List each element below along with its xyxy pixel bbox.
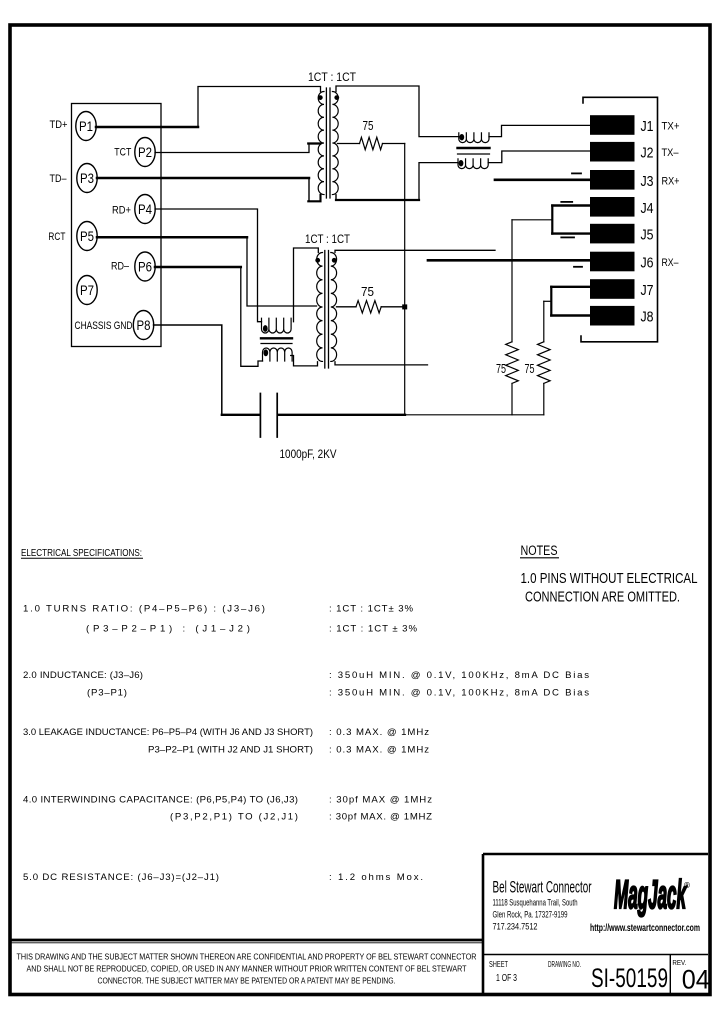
resistor R1 lead right to node xyxy=(383,143,405,145)
wire P1 to T1 primary top xyxy=(96,126,198,129)
J2 contact pad xyxy=(590,142,635,162)
svg-text:P4: P4 xyxy=(138,202,152,217)
svg-text:DRAWING NO.: DRAWING NO. xyxy=(548,960,581,969)
pin P8 xyxy=(133,311,153,340)
J4 contact pad xyxy=(590,197,635,217)
svg-text:P6: P6 xyxy=(138,260,152,275)
svg-text:75: 75 xyxy=(361,285,374,299)
svg-text:: 350uH MIN. @ 0.1V, 100KHz,: : 350uH MIN. @ 0.1V, 100KHz, 8mA DC Bias xyxy=(329,688,589,699)
resistor R3 lead bottom xyxy=(511,383,513,414)
resistor R3 zigzag xyxy=(506,342,519,384)
svg-text:P3–P2–P1 (WITH J2 AND J1 SHORT: P3–P2–P1 (WITH J2 AND J1 SHORT) xyxy=(148,745,313,756)
capacitor C1 wire right xyxy=(278,414,405,416)
svg-text:NOTES: NOTES xyxy=(521,543,558,558)
svg-text:MagJack: MagJack xyxy=(614,873,687,917)
rev cell divider xyxy=(669,955,671,994)
pin P1 xyxy=(76,112,96,141)
choke L2 core xyxy=(261,337,292,339)
choke L2 top winding phase dot xyxy=(263,325,268,332)
svg-text:: 350uH MIN. @ 0.1V, 100KHz,: : 350uH MIN. @ 0.1V, 100KHz, 8mA DC Bias xyxy=(329,670,589,681)
choke L2 top winding xyxy=(262,318,292,333)
transformer T2 secondary winding xyxy=(331,253,337,362)
J connector box outline xyxy=(581,97,658,341)
wire P2 to T1 primary center tap xyxy=(155,144,309,153)
transformer T1 secondary winding xyxy=(332,92,338,195)
svg-text:3.0 LEAKAGE INDUCTANCE: P6: 3.0 LEAKAGE INDUCTANCE: P6–P5–P4 (WITH J… xyxy=(23,727,313,738)
pin P7 xyxy=(77,276,97,305)
svg-text:1.0 TURNS RATIO: (P4–P5–P6): 1.0 TURNS RATIO: (P4–P5–P6) : (J3–J6) xyxy=(23,604,265,615)
J1 contact pad xyxy=(590,115,635,135)
svg-text:SI-50159: SI-50159 xyxy=(591,963,668,993)
svg-text:TD–: TD– xyxy=(50,173,67,185)
wire P6 to choke L2 bottom winding xyxy=(155,266,241,269)
svg-text:CHASSIS GND: CHASSIS GND xyxy=(75,320,133,332)
sheet row divider xyxy=(483,954,708,956)
wire bracket J7-J8 to resistor R4 xyxy=(544,300,552,302)
svg-text:(P3,P2,P1) TO (J2,J1): (P3,P2,P1) TO (J2,J1) xyxy=(170,812,298,823)
resistor R2 75 lead left xyxy=(337,306,357,308)
wire capacitor node to resistors R3 R4 xyxy=(405,414,544,416)
svg-text:TX+: TX+ xyxy=(662,121,680,133)
svg-text:J4: J4 xyxy=(641,201,654,217)
svg-text:CONNECTION ARE OMITTED.: CONNECTION ARE OMITTED. xyxy=(525,589,680,606)
resistor R2 lead right to node xyxy=(381,306,405,308)
svg-text:1CT : 1CT: 1CT : 1CT xyxy=(305,232,351,246)
svg-text:Glen Rock, Pa. 17327-9199: Glen Rock, Pa. 17327-9199 xyxy=(493,910,568,920)
disclaimer box top rule xyxy=(10,939,483,942)
svg-text:: 0.3 MAX. @ 1MHz: : 0.3 MAX. @ 1MHz xyxy=(329,727,429,738)
svg-text:RD+: RD+ xyxy=(112,205,131,217)
resistor R1 75 lead left xyxy=(338,143,360,145)
transformer T2 primary phase dot xyxy=(315,258,320,263)
svg-text:J2: J2 xyxy=(641,146,654,162)
wire to J6 xyxy=(428,259,590,262)
J6 polarity dash xyxy=(574,266,582,268)
wire P5 to T2 primary center tap xyxy=(97,236,247,239)
title block border xyxy=(483,854,708,994)
svg-text:: 30pf MAX. @ 1MHZ: : 30pf MAX. @ 1MHZ xyxy=(329,812,432,823)
svg-text:®: ® xyxy=(684,881,690,890)
svg-text:P1: P1 xyxy=(79,119,93,134)
choke L2 bottom winding phase dot xyxy=(263,349,268,356)
transformer T1 core xyxy=(326,88,330,198)
pin P3 xyxy=(77,164,97,193)
wire to J3 xyxy=(495,178,590,181)
jumper bracket J7-J8 xyxy=(550,287,552,316)
wire bracket to J5 xyxy=(552,232,590,234)
svg-text:AND SHALL NOT BE REPRODUCED, C: AND SHALL NOT BE REPRODUCED, COPIED, OR … xyxy=(27,964,468,974)
wire choke L2 to T2 primary bottom xyxy=(291,356,318,366)
svg-text:J6: J6 xyxy=(641,256,654,272)
J3 polarity dash xyxy=(572,172,581,174)
J8 contact pad xyxy=(590,306,635,326)
wire node vertical to capacitor line xyxy=(404,144,406,415)
transformer T1 secondary phase dot xyxy=(334,95,339,100)
svg-text:TX–: TX– xyxy=(662,147,680,159)
svg-text:4.0 INTERWINDING CAPACITANCE: 4.0 INTERWINDING CAPACITANCE: (P6,P5,P4)… xyxy=(23,795,298,806)
svg-text:75: 75 xyxy=(363,119,374,133)
svg-text:RCT: RCT xyxy=(48,231,65,243)
transformer T2 primary winding xyxy=(317,253,323,362)
svg-text:P5: P5 xyxy=(80,229,94,244)
svg-text:1CT : 1CT: 1CT : 1CT xyxy=(308,70,357,84)
svg-text:http://www.stewartconnector.co: http://www.stewartconnector.com xyxy=(590,922,700,934)
resistor R1 75 zigzag xyxy=(360,137,383,149)
capacitor C1 wire left xyxy=(222,414,260,416)
wire bracket J4-J5 to resistor R3 xyxy=(512,219,552,221)
pin P2 xyxy=(135,138,155,167)
svg-text:RD–: RD– xyxy=(111,261,129,273)
resistor R3 lead top xyxy=(511,220,513,342)
svg-text:SHEET: SHEET xyxy=(489,960,508,969)
pin P4 xyxy=(135,195,155,224)
choke L1 bottom winding xyxy=(458,159,488,169)
svg-text:1000pF, 2KV: 1000pF, 2KV xyxy=(280,447,337,461)
svg-text:RX+: RX+ xyxy=(662,175,680,187)
svg-text:5.0 DC RESISTANCE: (J6–J3)=(J: 5.0 DC RESISTANCE: (J6–J3)=(J2–J1) xyxy=(23,872,219,883)
transformer T1 primary winding xyxy=(318,92,324,195)
wire P3 to T1 primary bottom xyxy=(97,177,309,180)
J3 contact pad xyxy=(590,170,635,190)
svg-text:J5: J5 xyxy=(641,228,654,244)
choke L1 bottom winding phase dot xyxy=(459,160,464,166)
wire bracket to J4 xyxy=(552,204,590,206)
svg-text:J3: J3 xyxy=(641,174,654,190)
svg-text:1 OF 3: 1 OF 3 xyxy=(496,972,517,984)
svg-text:: 0.3 MAX. @ 1MHz: : 0.3 MAX. @ 1MHz xyxy=(329,745,429,756)
J5 polarity dash xyxy=(561,236,574,238)
resistor R4 lead bottom xyxy=(543,383,545,414)
capacitor C1 plates xyxy=(260,394,277,438)
svg-text:11118 Susquehanna Trail, South: 11118 Susquehanna Trail, South xyxy=(493,898,578,908)
J7 contact pad xyxy=(590,279,635,299)
resistor R4 lead top xyxy=(543,301,545,342)
jumper bracket J4-J5 xyxy=(551,206,553,234)
wire T2 secondary top xyxy=(335,250,495,252)
svg-text:P7: P7 xyxy=(80,283,94,298)
wire P8 to capacitor C1 xyxy=(154,325,222,415)
svg-text:P8: P8 xyxy=(137,318,151,333)
wire bracket to J7 xyxy=(551,286,590,288)
choke L2 bottom winding xyxy=(263,348,293,361)
wire T2 secondary bottom xyxy=(335,362,428,365)
resistor R4 zigzag xyxy=(538,342,551,384)
svg-text:04: 04 xyxy=(682,965,710,995)
transformer T2 core xyxy=(325,251,329,369)
wire T1 secondary top to choke L1 xyxy=(336,86,459,137)
disclaimer box inner rule xyxy=(10,942,483,944)
svg-text:P2: P2 xyxy=(138,145,152,160)
svg-text:THIS DRAWING AND THE SUBJECT M: THIS DRAWING AND THE SUBJECT MATTER SHOW… xyxy=(17,952,477,962)
svg-text:: 1.2 ohms Mox.: : 1.2 ohms Mox. xyxy=(329,872,423,883)
wire choke L1 to J2 xyxy=(488,151,590,163)
svg-text:75: 75 xyxy=(496,362,506,376)
wire choke L1 to J1 xyxy=(489,125,590,136)
wire choke L2 to T2 primary top xyxy=(294,248,319,322)
J6 contact pad xyxy=(590,252,635,272)
svg-text:: 1CT : 1CT ± 3%: : 1CT : 1CT ± 3% xyxy=(329,624,417,635)
svg-text:J1: J1 xyxy=(641,119,654,135)
svg-text:ELECTRICAL SPECIFICATIONS:: ELECTRICAL SPECIFICATIONS: xyxy=(21,548,142,559)
svg-text:(P3–P1): (P3–P1) xyxy=(87,688,127,699)
svg-text:75: 75 xyxy=(525,362,535,376)
J4 polarity dash xyxy=(561,201,572,203)
choke L1 core xyxy=(458,147,490,149)
pin P6 xyxy=(135,252,155,281)
svg-text:TD+: TD+ xyxy=(50,119,68,131)
wire P4 to choke L2 top winding xyxy=(155,209,262,322)
wire T1 secondary bottom to choke L1 xyxy=(335,195,337,200)
svg-text:: 1CT : 1CT± 3%: : 1CT : 1CT± 3% xyxy=(329,604,413,615)
svg-text:TCT: TCT xyxy=(114,147,131,159)
svg-text:Bel Stewart Connector: Bel Stewart Connector xyxy=(493,879,592,897)
J5 contact pad xyxy=(590,224,635,244)
transformer T2 secondary phase dot xyxy=(332,258,337,263)
svg-text:RX–: RX– xyxy=(662,257,680,269)
svg-text:CONNECTOR. THE SUBJECT MATTER: CONNECTOR. THE SUBJECT MATTER MAY BE PAT… xyxy=(98,976,396,986)
svg-text:P3: P3 xyxy=(80,171,94,186)
svg-text:: 30pf MAX @ 1MHz: : 30pf MAX @ 1MHz xyxy=(329,795,432,806)
wire bracket to J8 xyxy=(551,314,590,316)
transformer T1 primary phase dot xyxy=(318,95,323,100)
pin P5 xyxy=(77,222,97,251)
svg-text:J8: J8 xyxy=(641,310,654,326)
junction node dot xyxy=(402,304,407,309)
svg-text:J7: J7 xyxy=(641,283,654,299)
P connector box xyxy=(72,104,162,347)
choke L1 top winding xyxy=(459,133,489,143)
svg-text:1.0 PINS WITHOUT ELECTRICAL: 1.0 PINS WITHOUT ELECTRICAL xyxy=(521,570,698,587)
svg-text:2.0 INDUCTANCE: (J3–J6): 2.0 INDUCTANCE: (J3–J6) xyxy=(23,670,143,681)
svg-text:717.234.7512: 717.234.7512 xyxy=(493,922,538,932)
resistor R2 75 zigzag xyxy=(356,301,381,313)
choke L1 top winding phase dot xyxy=(459,134,464,140)
